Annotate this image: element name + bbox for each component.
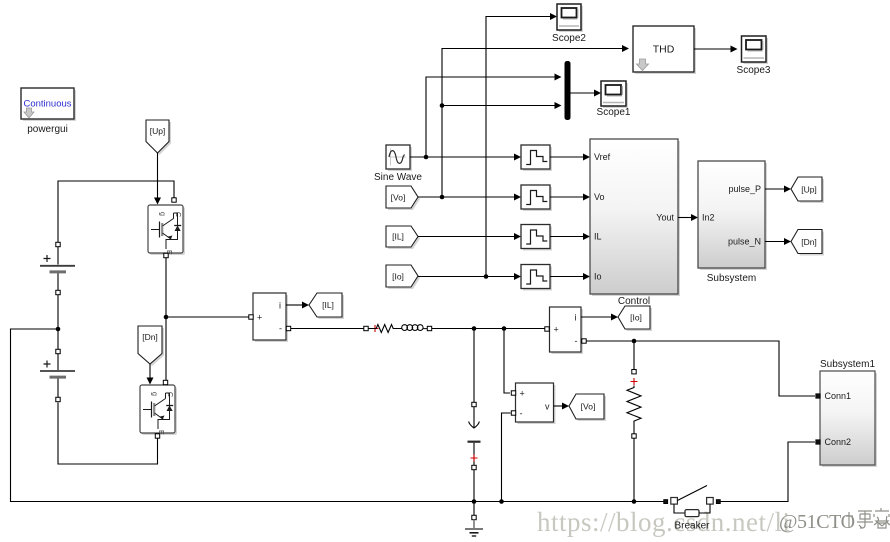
capacitor branch C: [468, 329, 481, 502]
svg-text:[Io]: [Io]: [630, 313, 642, 323]
ZOH block 4: [521, 265, 552, 291]
svg-text:[Up]: [Up]: [801, 185, 817, 195]
svg-text:i: i: [575, 313, 577, 323]
wire CM2 i to [Io] goto: [581, 316, 611, 318]
IGBT2 block: [140, 385, 177, 435]
svg-text:@51CTO: @51CTO: [779, 511, 855, 533]
wire ZOH3 to Control IL: [550, 236, 583, 238]
Scope1 block: [597, 81, 631, 118]
wire CM1 - to RL branch: [291, 328, 365, 330]
svg-text:THD: THD: [653, 44, 675, 56]
Goto tag [IL]: [309, 293, 344, 319]
svg-text:Conn1: Conn1: [825, 391, 852, 401]
wire ZOH4 to Control Io: [550, 276, 583, 278]
svg-text:Yout: Yout: [656, 213, 674, 223]
wire pulse_P to [Up] goto: [765, 188, 784, 190]
ZOH block 1: [521, 145, 552, 171]
svg-text:[IL]: [IL]: [322, 300, 334, 310]
wire THD to Scope3: [694, 48, 731, 50]
ZOH block 2: [521, 185, 552, 211]
mux block: [565, 61, 571, 120]
THD block: [633, 26, 696, 74]
svg-text:g: g: [159, 212, 166, 216]
svg-text:g: g: [151, 392, 158, 396]
node midpoint junction: [164, 315, 169, 320]
port Subsystem1 Conn2: [816, 440, 820, 444]
port CM2 -: [582, 339, 586, 343]
svg-text:[IL]: [IL]: [392, 232, 404, 242]
port VM -: [511, 411, 515, 415]
Sine Wave block: [374, 145, 422, 183]
svg-text:Subsystem: Subsystem: [707, 273, 756, 284]
wire [Vo] to ZOH2: [418, 196, 514, 198]
wire battery2- to IGBT2 emitter: [58, 403, 158, 465]
svg-text:[Io]: [Io]: [392, 272, 404, 282]
node A junction: [472, 326, 477, 331]
wire VM v to [Vo] goto: [554, 405, 563, 407]
wire [Io] to ZOH4: [418, 276, 514, 278]
svg-text:-: -: [279, 324, 282, 334]
svg-text:-: -: [520, 409, 523, 419]
svg-text:powergui: powergui: [27, 124, 68, 135]
IGBT1 block: [148, 205, 185, 255]
svg-text:Breaker: Breaker: [674, 521, 710, 532]
wire voltage measurement - to rail: [502, 413, 511, 502]
DC source battery1: [40, 246, 75, 291]
Subsystem block: [698, 161, 767, 284]
svg-text:https://blog.csdn.net/li: https://blog.csdn.net/li: [537, 507, 791, 537]
wire RL to CM2: [432, 328, 545, 330]
ground symbol: [465, 502, 483, 537]
wire [IL] to ZOH3: [418, 236, 514, 238]
svg-text:[Dn]: [Dn]: [801, 237, 817, 247]
svg-text:IL: IL: [594, 232, 602, 242]
svg-text:Control: Control: [618, 296, 650, 307]
svg-text:pulse_N: pulse_N: [728, 237, 761, 247]
junction load-rail: [632, 499, 637, 504]
port IGBT2 E: [155, 434, 159, 438]
port CM1 +: [249, 315, 253, 319]
junction Io trunk: [484, 274, 489, 279]
trunk wire Io to Scope2: [486, 17, 550, 277]
junction sine trunk: [424, 155, 429, 160]
wire battery1+ to IGBT1 collector: [58, 181, 174, 243]
port CM1 -: [286, 326, 290, 330]
wire CM1 i to [IL] goto: [286, 304, 302, 306]
svg-text:Vref: Vref: [594, 152, 611, 162]
svg-text:[Vo]: [Vo]: [391, 193, 406, 203]
wire Sine to ZOH1: [410, 156, 514, 158]
svg-text:Scope3: Scope3: [737, 65, 771, 76]
svg-text:[Dn]: [Dn]: [142, 332, 158, 342]
From tag [Up] (top): [146, 120, 171, 155]
breaker block: [664, 486, 721, 532]
wire ZOH1 to Control Vref: [550, 156, 583, 158]
load resistor branch: [627, 341, 641, 502]
svg-text:[Up]: [Up]: [150, 126, 166, 136]
wire breaker to Conn2 of Subsystem1: [720, 442, 815, 502]
wire pulse_N to [Dn] goto: [765, 241, 784, 243]
From tag [Vo]: [386, 186, 420, 210]
junction VM- rail: [499, 499, 504, 504]
svg-text:In2: In2: [702, 213, 715, 223]
Goto tag [Up]: [791, 177, 824, 203]
wire ZOH2 to Control Vo: [550, 196, 583, 198]
series RL branch: [364, 325, 432, 333]
port IGBT1 E: [164, 253, 168, 257]
wire mux to Scope1: [571, 92, 595, 94]
From tag [IL]: [386, 226, 420, 249]
svg-text:Scope2: Scope2: [552, 33, 586, 44]
voltage measurement VM (Vo): [516, 383, 556, 424]
wire battery midpoint to left rail: [11, 329, 664, 502]
From tag [Dn] (lower): [138, 326, 164, 366]
wire [Up] to IGBT1 gate: [157, 153, 159, 198]
Goto tag [Io]: [618, 306, 652, 331]
Goto tag [Vo]: [569, 394, 606, 421]
port CM2 +: [545, 327, 549, 331]
port IGBT1 C: [172, 198, 176, 202]
svg-text:+: +: [520, 389, 525, 399]
trunk wire Vo to THD: [442, 49, 622, 198]
port IGBT2 C: [163, 380, 167, 384]
watermark CJK glyph 2 (客): [874, 508, 890, 528]
wire node to current measurement CM1: [166, 316, 249, 318]
svg-text:v: v: [545, 402, 550, 412]
watermark CJK glyph 1 (博): [846, 511, 873, 528]
wire node B down to voltage measurement +: [504, 329, 510, 394]
svg-text:Io: Io: [594, 272, 602, 282]
junction cap-rail: [472, 499, 477, 504]
junction Vo-mux: [440, 103, 445, 108]
port VM +: [511, 391, 515, 395]
wire IGBT1 emitter to midpoint node and IGBT2 collector: [165, 258, 167, 381]
Scope2 block: [552, 4, 586, 44]
port battery1 +: [56, 242, 60, 246]
From tag [Io]: [386, 265, 420, 289]
wire CM2 - to Conn1 of Subsystem1: [586, 341, 815, 396]
trunk wire Vref to mux in1: [426, 77, 555, 157]
wire [Dn] to IGBT2 gate: [149, 364, 151, 378]
node B junction: [502, 326, 507, 331]
port battery1 -: [56, 290, 60, 294]
port Subsystem1 Conn1: [816, 394, 820, 398]
DC source battery2: [40, 352, 75, 398]
node battery midpoint: [56, 327, 61, 332]
svg-text:Scope1: Scope1: [597, 107, 631, 118]
svg-text:Conn2: Conn2: [825, 437, 852, 447]
Subsystem1 block: [820, 359, 877, 467]
ZOH block 3: [521, 225, 552, 251]
Goto tag [Dn]: [791, 230, 824, 256]
svg-text:-: -: [575, 336, 578, 346]
Control subsystem block: [590, 139, 680, 307]
current measurement CM1 (IL): [253, 293, 288, 342]
svg-text:+: +: [257, 313, 262, 323]
branch Vo to mux in2: [442, 105, 555, 107]
port battery2 +: [56, 349, 60, 353]
svg-text:i: i: [279, 301, 281, 311]
junction Vo trunk: [440, 195, 445, 200]
svg-text:[Vo]: [Vo]: [581, 402, 596, 412]
powergui block: [21, 88, 76, 135]
svg-text:pulse_P: pulse_P: [728, 184, 761, 194]
svg-text:+: +: [554, 325, 559, 335]
current measurement CM2 (Io): [550, 307, 584, 354]
svg-text:Sine Wave: Sine Wave: [374, 172, 422, 183]
svg-text:Subsystem1: Subsystem1: [820, 359, 875, 370]
wire battery1- to battery2+: [57, 295, 59, 350]
port battery2 -: [56, 397, 60, 401]
wire Yout to Subsystem In2: [678, 217, 691, 219]
Scope3 block: [737, 36, 771, 76]
junction load branch: [632, 339, 637, 344]
svg-text:Vo: Vo: [594, 192, 605, 202]
